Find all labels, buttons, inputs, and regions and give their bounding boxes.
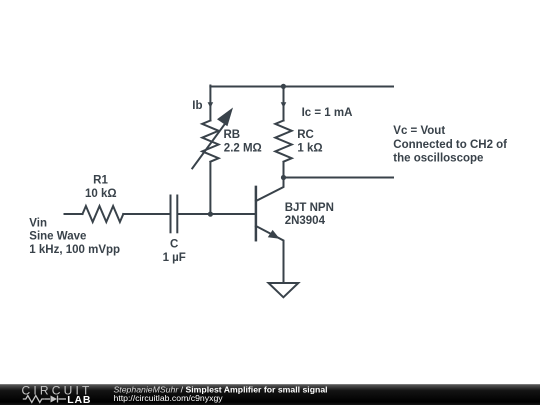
- svg-text:Ic = 1 mA: Ic = 1 mA: [302, 107, 353, 119]
- svg-text:2.2 MΩ: 2.2 MΩ: [224, 143, 262, 155]
- svg-text:Vin: Vin: [29, 217, 47, 229]
- svg-text:2N3904: 2N3904: [285, 215, 326, 227]
- svg-text:http://circuitlab.com/c9nyxgy: http://circuitlab.com/c9nyxgy: [114, 393, 224, 403]
- svg-text:C: C: [170, 238, 178, 250]
- svg-text:LAB: LAB: [67, 394, 91, 405]
- svg-text:RB: RB: [224, 129, 241, 141]
- svg-text:RC: RC: [297, 129, 314, 141]
- svg-text:BJT NPN: BJT NPN: [285, 202, 334, 214]
- svg-text:Connected to CH2 of: Connected to CH2 of: [393, 139, 507, 151]
- svg-text:Vc = Vout: Vc = Vout: [393, 125, 445, 137]
- svg-text:1 kΩ: 1 kΩ: [297, 143, 322, 155]
- svg-text:the oscilloscope: the oscilloscope: [393, 153, 483, 165]
- svg-text:R1: R1: [93, 175, 108, 187]
- svg-text:10 kΩ: 10 kΩ: [85, 188, 117, 200]
- svg-text:Ib: Ib: [192, 100, 202, 112]
- svg-text:1 µF: 1 µF: [163, 252, 186, 264]
- svg-text:Sine Wave: Sine Wave: [29, 231, 86, 243]
- svg-text:1 kHz, 100 mVpp: 1 kHz, 100 mVpp: [29, 244, 120, 256]
